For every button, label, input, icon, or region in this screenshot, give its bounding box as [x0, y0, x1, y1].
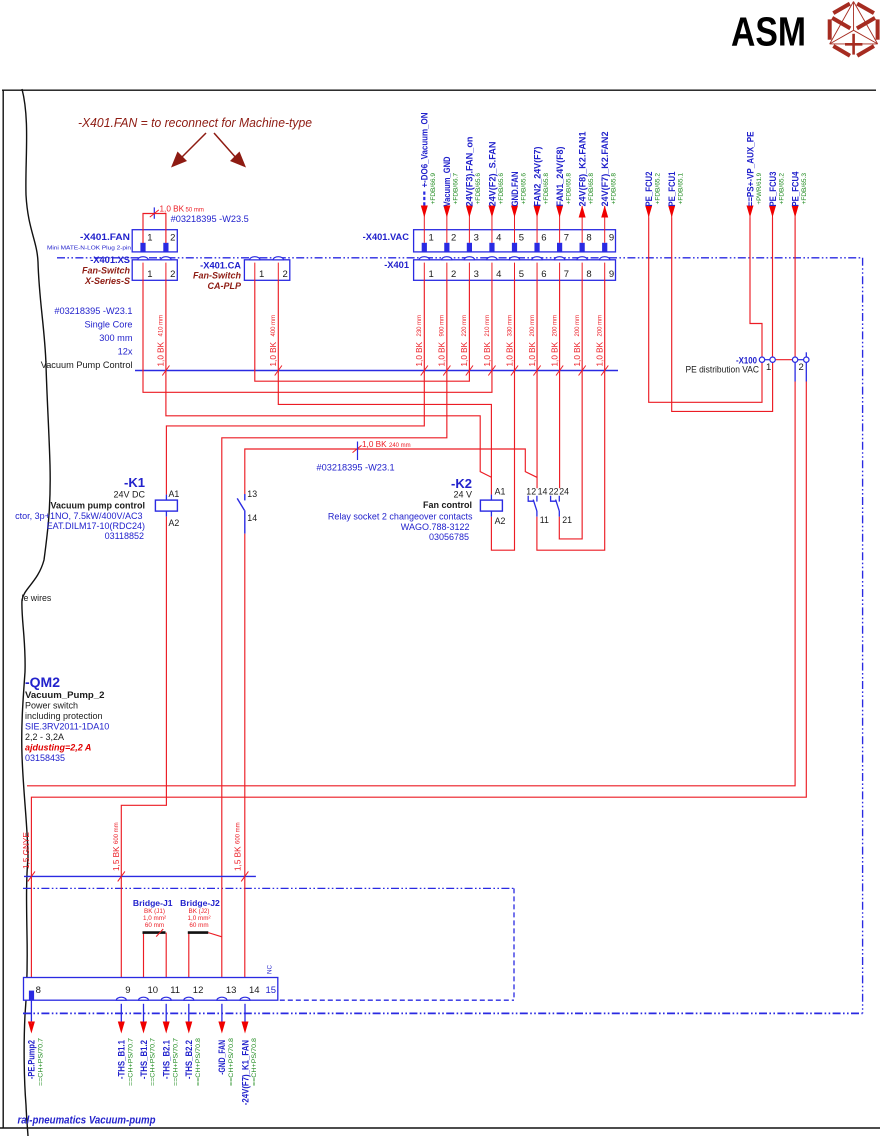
svg-text:9: 9	[125, 985, 130, 996]
svg-text:GND.FAN: GND.FAN	[509, 171, 520, 206]
terminal 11 socket	[161, 997, 171, 1000]
svg-text:6: 6	[541, 269, 546, 280]
net arrow/label 24V(F8)_K2.FAN1 at X401.VAC pin 8	[581, 206, 583, 230]
svg-text:1,0 mm²: 1,0 mm²	[187, 915, 210, 922]
svg-text:==CH+PS/70.7: ==CH+PS/70.7	[128, 1038, 135, 1086]
terminal 8 (PE plug pin)	[29, 991, 34, 1000]
svg-text:1,0 BK: 1,0 BK	[415, 341, 424, 366]
svg-text:900 mm: 900 mm	[440, 315, 446, 337]
K1 coil A1/A2	[165, 495, 167, 501]
svg-text:FAN1_24V(F8): FAN1_24V(F8)	[554, 147, 565, 207]
svg-text:ral-pneumatics Vacuum-pump: ral-pneumatics Vacuum-pump	[18, 1115, 156, 1127]
svg-text:1,0 BK: 1,0 BK	[573, 341, 582, 366]
cable crossing X401 pin 2	[443, 366, 450, 376]
svg-text:14: 14	[247, 513, 257, 523]
svg-text:3: 3	[474, 269, 479, 280]
svg-text:24V(F3).FAN_on: 24V(F3).FAN_on	[464, 136, 475, 206]
cable crossing X401 pin 9	[601, 366, 608, 376]
svg-text:==CH+PS/70.8: ==CH+PS/70.8	[195, 1038, 202, 1086]
svg-text:-THS_B2.1: -THS_B2.1	[162, 1040, 172, 1079]
net arrow/label 24V(F3).FAN_on at X401.VAC pin 3	[468, 206, 470, 230]
svg-text:BK (J1): BK (J1)	[144, 908, 165, 915]
svg-text:+FDB/65.8: +FDB/65.8	[565, 173, 572, 205]
svg-text:PE_FCU4: PE_FCU4	[789, 171, 800, 207]
svg-text:Vacuum_GND: Vacuum_GND	[441, 156, 452, 206]
svg-text:-PE.Pump2: -PE.Pump2	[27, 1040, 37, 1079]
torn page edge	[22, 89, 50, 1136]
svg-text:PE_FCU2: PE_FCU2	[643, 172, 654, 207]
svg-text:Bridge-J2: Bridge-J2	[180, 898, 220, 908]
svg-text:24V(F7)_K2.FAN2: 24V(F7)_K2.FAN2	[599, 132, 610, 207]
svg-text:1,0 BK: 1,0 BK	[596, 341, 605, 366]
connector -X401 (socket, 9-pin)	[414, 260, 616, 281]
svg-text:8: 8	[586, 233, 591, 244]
svg-text:5: 5	[519, 233, 524, 244]
svg-text:2,2 - 3,2A: 2,2 - 3,2A	[25, 732, 64, 742]
K1 contact 13/14 (NO)	[244, 494, 246, 500]
svg-text:1,0 BK: 1,0 BK	[550, 341, 559, 366]
connector -X401.FAN (plug, 2-pin)	[132, 230, 177, 252]
net arrow/label FAN2_24V(F7) at X401.VAC pin 6	[536, 206, 538, 230]
wire: PE_FCU2 arrow down to X100.1	[649, 218, 762, 403]
svg-text:#03218395 -W23.1: #03218395 -W23.1	[54, 306, 132, 316]
wire: PS+-VP_AUX_PE down jog to X100.1	[750, 218, 762, 358]
terminal strip -X.. (8..15)	[24, 978, 278, 1001]
svg-text:FAN2_24V(F7): FAN2_24V(F7)	[531, 147, 542, 207]
svg-text:200 mm: 200 mm	[530, 315, 536, 337]
wire: X100 terminal link	[775, 359, 793, 361]
terminal 14 socket	[240, 997, 250, 1000]
svg-text:03118852: 03118852	[105, 531, 144, 541]
cable crossing X401 pin 5	[511, 366, 518, 376]
cable crossing XS pin2 wire	[162, 366, 169, 376]
svg-text:600 mm: 600 mm	[114, 822, 120, 844]
svg-text:10: 10	[148, 985, 159, 996]
terminal -24V(F7)_K1_FAN tail arrow	[244, 1004, 246, 1022]
svg-text:+FDB/65.6: +FDB/65.6	[520, 173, 527, 205]
wire: X401 pin8 to K2 contact 21	[559, 280, 582, 539]
svg-text:-X401.FAN: -X401.FAN	[80, 232, 130, 242]
svg-text:Single Core: Single Core	[84, 320, 132, 330]
wire: K1 contact 13 across to K2 pin-14 jog (1,0 BK 240mm)	[245, 449, 537, 494]
svg-text:A2: A2	[169, 518, 180, 528]
svg-text:Mini MATE-N-LOK Plug 2-pin: Mini MATE-N-LOK Plug 2-pin	[47, 246, 131, 252]
net arrow/label PE_FCU1	[671, 206, 673, 218]
svg-text:EAT.DILM17-10(RDC24): EAT.DILM17-10(RDC24)	[47, 521, 145, 531]
svg-text:210 mm: 210 mm	[485, 315, 491, 337]
page frame left border	[2, 90, 4, 1128]
svg-text:BK (J2): BK (J2)	[189, 908, 210, 915]
terminal -X100 circles	[759, 357, 764, 362]
ASM logo hexagon emblem	[830, 2, 854, 44]
svg-text:8: 8	[586, 269, 591, 280]
svg-text:ajdusting=2,2 A: ajdusting=2,2 A	[25, 743, 91, 753]
svg-text:200 mm: 200 mm	[598, 315, 604, 337]
svg-text:240 mm: 240 mm	[389, 443, 411, 449]
svg-text:14: 14	[249, 985, 260, 996]
svg-text:+FDB/65.8: +FDB/65.8	[611, 173, 618, 205]
svg-text:13: 13	[247, 489, 257, 499]
svg-text:+FDB/65.3: +FDB/65.3	[801, 173, 808, 205]
svg-text:24: 24	[559, 486, 569, 496]
svg-text:#03218395 -W23.1: #03218395 -W23.1	[317, 463, 395, 473]
svg-text:+FDB/66.9: +FDB/66.9	[430, 173, 437, 205]
svg-text:2: 2	[283, 269, 288, 280]
svg-text:A2: A2	[495, 516, 506, 526]
terminal -THS_B2.1 tail arrow	[165, 1004, 167, 1022]
crossing tick terminal14 wire + label 1,5 BK 600mm	[241, 871, 248, 881]
page frame bottom border	[0, 1127, 880, 1129]
net arrow/label 24V(F2)_S.FAN at X401.VAC pin 4	[491, 206, 493, 230]
svg-text:7: 7	[564, 233, 569, 244]
wire: K1 coil A2 down to terminal 9	[121, 517, 166, 997]
page frame top border	[2, 89, 876, 91]
svg-text:+FDB/65.6: +FDB/65.6	[498, 173, 505, 205]
svg-text:including protection: including protection	[25, 711, 103, 721]
wire: X100.2 left leg down-left to page edge	[794, 362, 796, 381]
svg-text:1,0 BK: 1,0 BK	[483, 341, 492, 366]
svg-text:220 mm: 220 mm	[462, 315, 468, 337]
connector -X401.VAC (plug, 9-pin)	[414, 230, 616, 252]
svg-text:9: 9	[609, 269, 614, 280]
svg-text:A1: A1	[169, 489, 180, 499]
bridge J1 (terminals 10-11)	[143, 933, 145, 997]
wire: X401 pin2 left to bottom terminal 13 riser	[222, 280, 447, 997]
svg-text:1,0 BK: 1,0 BK	[157, 341, 166, 366]
terminal 9 socket	[116, 997, 126, 1000]
svg-text:14: 14	[538, 486, 548, 496]
svg-text:+FDB/65.6: +FDB/65.6	[475, 173, 482, 205]
net arrow/label ==PS+-VP_AUX_PE	[749, 206, 751, 218]
svg-text:Fan-Switch: Fan-Switch	[193, 271, 242, 281]
svg-text:PE distribution VAC: PE distribution VAC	[686, 365, 760, 375]
svg-text:+FDB/65.2: +FDB/65.2	[655, 173, 662, 205]
svg-text:12x: 12x	[118, 347, 133, 357]
bridge J2 (terminals 12-13)	[188, 933, 190, 997]
svg-text:1: 1	[429, 269, 434, 280]
svg-text:Vacuum pump control: Vacuum pump control	[50, 501, 145, 511]
svg-text:1,0 BK: 1,0 BK	[505, 341, 514, 366]
svg-text:24V(F8)_K2.FAN1: 24V(F8)_K2.FAN1	[576, 132, 587, 207]
svg-text:PE_FCU3: PE_FCU3	[767, 172, 778, 207]
cable crossing X401 pin 4	[488, 366, 495, 376]
net arrow/label PE_FCU4	[794, 206, 796, 218]
svg-text:1,5 BK: 1,5 BK	[234, 846, 243, 871]
svg-text:4: 4	[496, 233, 501, 244]
svg-text:200 mm: 200 mm	[575, 315, 581, 337]
wire: K1 pin14 down to terminal 14	[244, 534, 246, 997]
svg-text:A1: A1	[495, 487, 506, 497]
wire: PE_FCU4 down to X100.2	[794, 218, 796, 358]
crossing tick terminal8 wire + label 1,5 GNYE	[28, 871, 35, 881]
svg-text:1,0 BK: 1,0 BK	[528, 341, 537, 366]
terminal -THS_B1.2 tail arrow	[143, 1004, 145, 1022]
svg-text:==CH+PS/70.7: ==CH+PS/70.7	[150, 1038, 157, 1086]
svg-text:PE_FCU1: PE_FCU1	[666, 172, 677, 207]
svg-text:==PS+-VP_AUX_PE: ==PS+-VP_AUX_PE	[744, 132, 755, 207]
terminal 13 socket	[217, 997, 227, 1000]
net arrow/label GND.FAN at X401.VAC pin 5	[514, 206, 516, 230]
svg-text:Fan control: Fan control	[423, 500, 472, 510]
svg-text:#03218395 -W23.5: #03218395 -W23.5	[171, 214, 249, 224]
svg-text:+-DO6_Vacuum_ON: +-DO6_Vacuum_ON	[419, 112, 430, 187]
svg-text:1: 1	[147, 269, 152, 280]
svg-text:11: 11	[170, 985, 180, 996]
svg-text:21: 21	[562, 515, 572, 525]
svg-text:330 mm: 330 mm	[507, 315, 513, 337]
svg-text:le wires: le wires	[22, 593, 52, 603]
svg-text:2: 2	[451, 269, 456, 280]
svg-text:300 mm: 300 mm	[99, 333, 133, 343]
svg-text:03158435: 03158435	[25, 753, 65, 763]
svg-text:==CH+PS/70.8: ==CH+PS/70.8	[228, 1038, 235, 1086]
svg-text:-24V(F7)_K1_FAN: -24V(F7)_K1_FAN	[240, 1040, 250, 1106]
svg-text:Relay socket 2 changeover cont: Relay socket 2 changeover contacts	[328, 512, 473, 522]
wire: X401 pin9 to K2 contact 11	[537, 280, 605, 550]
svg-text:1,0 BK: 1,0 BK	[438, 341, 447, 366]
cable tick W23.5	[153, 207, 155, 218]
terminal -GND_FAN tail arrow	[221, 1004, 223, 1022]
svg-text:-THS_B2.2: -THS_B2.2	[184, 1040, 194, 1079]
svg-text:SIE.3RV2011-1DA10: SIE.3RV2011-1DA10	[25, 722, 109, 732]
svg-text:1: 1	[147, 233, 152, 244]
svg-text:4: 4	[496, 269, 501, 280]
terminal 12 socket	[184, 997, 194, 1000]
svg-text:Vacuum Pump Control: Vacuum Pump Control	[41, 360, 133, 370]
svg-text:-X401.FAN = to reconnect for M: -X401.FAN = to reconnect for Machine-typ…	[78, 115, 312, 130]
svg-text:1,0 BK: 1,0 BK	[460, 341, 469, 366]
svg-text:+PWR/61.9: +PWR/61.9	[756, 173, 763, 205]
svg-text:1: 1	[766, 362, 771, 373]
svg-text:+FDB/65.8: +FDB/65.8	[588, 173, 595, 205]
svg-text:Bridge-J1: Bridge-J1	[133, 898, 173, 908]
net arrow/label Vacuum_GND at X401.VAC pin 2	[446, 206, 448, 230]
svg-text:5: 5	[519, 269, 524, 280]
svg-text:==CH+PS/70.7: ==CH+PS/70.7	[38, 1038, 45, 1086]
wire: X401 pin7 down to K2 contact 24	[559, 280, 561, 488]
svg-text:13: 13	[226, 985, 237, 996]
svg-text:03056785: 03056785	[429, 532, 469, 542]
wire: X100.2 right leg down to terminal 8	[805, 352, 807, 357]
svg-text:+FDB/65.1: +FDB/65.1	[678, 173, 685, 205]
svg-text:9: 9	[609, 233, 614, 244]
K2 coil A1/A2	[490, 495, 492, 501]
terminal 8 tail arrow	[30, 1000, 32, 1021]
cable crossing X401 pin 1	[421, 366, 428, 376]
svg-text:-THS_B1.1: -THS_B1.1	[117, 1040, 127, 1079]
svg-text:1: 1	[259, 269, 264, 280]
svg-text:60 mm: 60 mm	[145, 922, 164, 929]
wire: X401.FAN loop over pins	[143, 214, 166, 244]
svg-text:6: 6	[541, 233, 546, 244]
svg-text:1: 1	[429, 233, 434, 244]
svg-text:24V DC: 24V DC	[113, 490, 145, 500]
connector -X401.XS (socket)	[132, 260, 177, 281]
svg-text:-THS_B1.2: -THS_B1.2	[139, 1040, 149, 1079]
svg-text:1,0 BK: 1,0 BK	[160, 205, 185, 214]
svg-text:410 mm: 410 mm	[159, 315, 165, 337]
cable crossing X401 pin 7	[556, 366, 563, 376]
svg-text:2: 2	[451, 233, 456, 244]
label 1,0 BK 240 mm + cable tick	[353, 445, 362, 452]
terminal -THS_B2.2 tail arrow	[188, 1004, 190, 1022]
cable crossing X401 pin 6	[533, 366, 540, 376]
wire: X401 pin6 down to K2 contact 14	[536, 280, 538, 488]
svg-text:22: 22	[549, 486, 559, 496]
inner dash-dot enclosure bottom-left	[23, 887, 514, 889]
svg-text:Fan-Switch: Fan-Switch	[82, 265, 131, 275]
net arrow/label FAN1_24V(F8) at X401.VAC pin 7	[559, 206, 561, 230]
svg-text:1,0 BK: 1,0 BK	[362, 440, 387, 449]
svg-text:1,0 mm²: 1,0 mm²	[143, 915, 166, 922]
svg-text:230 mm: 230 mm	[417, 315, 423, 337]
cable crossing X401 pin 8	[579, 366, 586, 376]
svg-text:50 mm: 50 mm	[186, 208, 204, 214]
svg-text:-X401: -X401	[384, 260, 409, 270]
note arrow left	[180, 133, 206, 159]
svg-text:+FDB/65.8: +FDB/65.8	[543, 173, 550, 205]
connector -X401.CA (socket)	[244, 260, 289, 281]
wire stubs through connector bodies	[423, 230, 425, 243]
svg-text:400 mm: 400 mm	[271, 315, 277, 337]
svg-text:Vacuum_Pump_2: Vacuum_Pump_2	[25, 690, 104, 701]
net arrow/label PE_FCU3	[772, 206, 774, 218]
svg-text:-QM2: -QM2	[25, 674, 60, 690]
svg-text:-X401.VAC: -X401.VAC	[363, 232, 410, 242]
svg-text:1,5 BK: 1,5 BK	[112, 846, 121, 871]
svg-text:-K1: -K1	[124, 475, 145, 490]
svg-text:ASM: ASM	[731, 9, 806, 55]
svg-text:-X401.CA: -X401.CA	[200, 261, 241, 271]
svg-text:7: 7	[564, 269, 569, 280]
svg-text:600 mm: 600 mm	[236, 822, 242, 844]
svg-text:12: 12	[193, 985, 204, 996]
svg-text:-X401.XS: -X401.XS	[90, 255, 130, 265]
svg-text:+FDB/65.2: +FDB/65.2	[778, 173, 785, 205]
svg-text:==CH+PS/70.8: ==CH+PS/70.8	[251, 1038, 258, 1086]
terminal 10 socket	[139, 997, 149, 1000]
terminal -THS_B1.1 tail arrow	[120, 1004, 122, 1022]
wire: X401 pin1 to K1 coil A1	[166, 280, 424, 494]
svg-text:1,5 GNYE: 1,5 GNYE	[22, 832, 31, 869]
wire: X401 pin5 to K2 coil A2	[491, 280, 514, 550]
net arrow/label 24V(F7)_K2.FAN2 at X401.VAC pin 9	[604, 206, 606, 230]
cable line 2 (bottom)	[24, 875, 256, 877]
svg-text:3: 3	[474, 233, 479, 244]
svg-text:24V(F2)_S.FAN: 24V(F2)_S.FAN	[486, 141, 497, 206]
svg-text:12: 12	[526, 486, 536, 496]
note arrow right	[214, 133, 237, 159]
wire: PE_FCU3 down to X100.1 right	[772, 218, 774, 358]
cabinet boundary dash-dot: mating line + right + bottom	[57, 257, 863, 259]
wire: X401.CA pin1 to X401 pin3	[255, 280, 470, 381]
svg-text:60 mm: 60 mm	[189, 922, 208, 929]
svg-text:8: 8	[36, 985, 41, 996]
svg-text:2: 2	[170, 233, 175, 244]
svg-text:15: 15	[266, 985, 277, 996]
wire: X401.CA pin2 to K2 coil A1	[278, 280, 491, 494]
svg-text:200 mm: 200 mm	[552, 315, 558, 337]
svg-text:WAGO.788-3122: WAGO.788-3122	[401, 522, 470, 532]
svg-text:2: 2	[799, 362, 804, 373]
cable line Vacuum Pump Control	[135, 370, 618, 372]
svg-text:24 V: 24 V	[453, 490, 472, 500]
svg-text:1,0 BK: 1,0 BK	[269, 341, 278, 366]
net arrow/label +-DO6_Vacuum_ON at X401.VAC pin 1	[423, 206, 425, 230]
svg-text:ctor, 3p+1NO, 7.5kW/400V/AC3: ctor, 3p+1NO, 7.5kW/400V/AC3	[15, 511, 142, 521]
svg-text:-GND_FAN: -GND_FAN	[217, 1040, 227, 1075]
svg-text:X-Series-S: X-Series-S	[84, 276, 130, 286]
svg-text:2: 2	[170, 269, 175, 280]
net arrow/label PE_FCU2	[648, 206, 650, 218]
svg-text:CA-PLP: CA-PLP	[208, 281, 242, 291]
wire: X401.XS pin1 to X401 pin4	[143, 280, 492, 392]
svg-text:+FDB/66.7: +FDB/66.7	[453, 173, 460, 205]
cable crossing CA pin2 wire	[275, 366, 282, 376]
wire: PE_FCU1 arrow down to X100.1	[672, 218, 773, 412]
wire: X401.XS pin2 down-right to K2 A1 jog	[166, 280, 492, 477]
crossing tick terminal9 wire + label 1,5 BK 600mm	[118, 871, 125, 881]
svg-text:11: 11	[540, 515, 549, 525]
cable crossing X401 pin 3	[466, 366, 473, 376]
svg-text:NC: NC	[267, 964, 274, 974]
svg-text:Power switch: Power switch	[25, 701, 78, 711]
svg-text:==CH+PS/70.7: ==CH+PS/70.7	[172, 1038, 179, 1086]
